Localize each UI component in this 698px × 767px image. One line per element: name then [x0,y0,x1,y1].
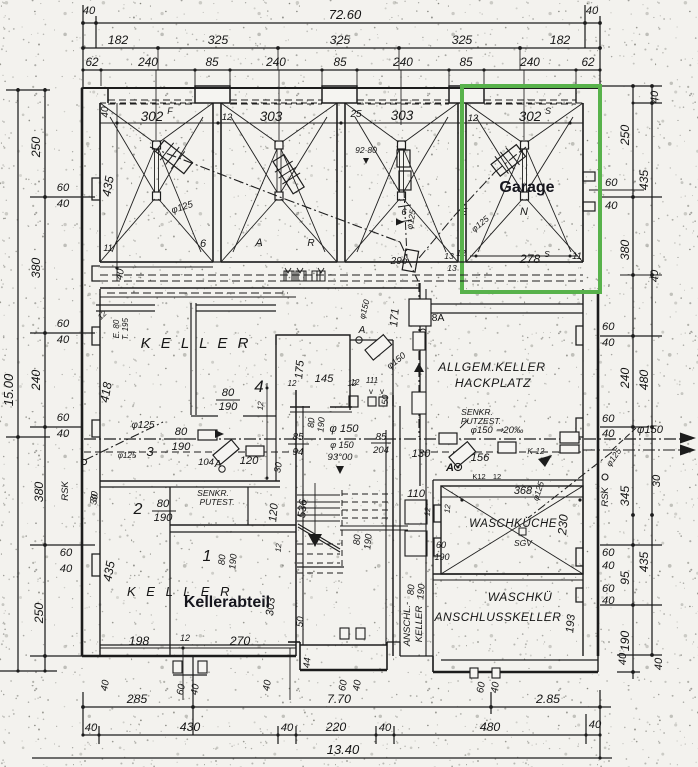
bottom dimension row 13.40 [32,742,612,760]
svg-text:204: 204 [372,445,389,456]
svg-text:RSK: RSK [60,481,71,501]
svg-text:40: 40 [649,90,661,103]
svg-text:240: 240 [519,55,540,69]
svg-text:130: 130 [412,448,431,460]
garage box 3 (303) [345,103,458,262]
green highlight rectangle Garage [462,86,600,292]
svg-text:30: 30 [651,474,663,487]
room KELLER (middle left) [96,303,280,487]
svg-text:40: 40 [57,334,70,346]
outer wall bottom [82,642,598,672]
svg-text:145: 145 [315,373,334,385]
svg-text:7.70: 7.70 [327,692,351,706]
svg-text:430: 430 [180,720,201,734]
bottom door center (stair exit) [337,628,365,692]
svg-text:85: 85 [205,55,219,69]
bottom dimension row 430/220/480 [81,714,602,744]
garage separating walls [213,103,466,262]
pumps right side [412,425,579,474]
svg-text:40: 40 [586,5,599,17]
svg-text:S: S [545,106,551,116]
vent squares [284,268,325,281]
svg-text:44: 44 [302,657,314,668]
svg-text:302: 302 [519,109,542,124]
svg-text:190: 190 [434,552,449,562]
stair treads [295,483,408,669]
svg-text:1: 1 [203,548,212,565]
svg-text:12: 12 [468,113,479,124]
svg-text:111: 111 [366,376,378,385]
svg-text:303: 303 [260,109,283,124]
garage machine 1 [153,137,195,177]
svg-text:40: 40 [653,657,665,670]
svg-text:270: 270 [229,634,251,648]
pipe diagonal through garages [150,147,528,281]
svg-text:193: 193 [564,613,578,633]
duct squares center [276,271,320,345]
svg-text:120: 120 [240,455,259,467]
svg-text:120: 120 [267,502,281,522]
svg-text:60: 60 [602,547,615,559]
svg-text:Garage: Garage [499,179,554,196]
svg-text:435: 435 [637,170,651,191]
svg-text:40: 40 [605,200,618,212]
svg-text:3: 3 [146,444,154,459]
svg-text:190: 190 [362,533,374,550]
bottom interior dims 198/270 [99,633,296,700]
svg-text:480: 480 [480,720,501,734]
svg-text:v: v [369,387,373,396]
svg-text:60: 60 [60,547,73,559]
svg-text:278: 278 [519,252,541,266]
garage machine 3 vertical gear [396,150,419,272]
svg-text:95: 95 [618,571,632,585]
svg-text:190: 190 [618,631,632,652]
svg-text:40: 40 [589,719,602,731]
svg-text:40: 40 [57,198,70,210]
svg-text:536: 536 [296,498,310,518]
svg-text:40: 40 [602,428,615,440]
svg-text:302: 302 [141,109,164,124]
svg-text:Kellerabteil: Kellerabteil [184,594,270,611]
svg-text:62: 62 [581,55,595,69]
svg-text:2.85: 2.85 [535,692,560,706]
svg-text:156: 156 [471,452,490,464]
room WASCHKUE ANSCHLUSSKELLER [402,480,583,672]
svg-text:171: 171 [388,308,402,328]
svg-text:190: 190 [315,417,326,433]
garage center guide lines [156,70,524,140]
svg-text:E. 80: E. 80 [112,319,121,338]
svg-text:WASCHKÜ: WASCHKÜ [488,590,553,604]
svg-text:40: 40 [379,722,392,734]
room 4 [216,308,402,481]
svg-text:N: N [520,206,528,218]
svg-text:2: 2 [133,501,143,518]
svg-text:R: R [307,238,314,249]
vertical pipe with fittings [356,283,431,437]
svg-text:62: 62 [85,55,99,69]
svg-text:60: 60 [57,318,70,330]
left dimension rail inner [29,88,95,671]
svg-text:25: 25 [349,109,362,120]
garage box 1 (302) [100,103,213,262]
svg-text:A: A [445,462,454,474]
outer wall top with garage piers [82,86,600,292]
pipe labels left [60,420,309,503]
svg-text:12: 12 [351,378,360,387]
room 2 [88,487,176,656]
svg-text:50: 50 [295,615,307,627]
svg-text:12: 12 [443,503,453,513]
svg-text:A: A [254,237,262,249]
svg-text:303: 303 [391,108,414,123]
svg-text:80: 80 [175,426,188,438]
svg-text:6: 6 [200,238,207,250]
svg-text:80: 80 [222,387,235,399]
svg-text:220: 220 [325,720,347,734]
svg-text:60: 60 [602,413,615,425]
svg-text:85: 85 [333,55,347,69]
svg-text:40: 40 [60,563,73,575]
svg-text:190: 190 [219,401,238,413]
phi150 right outside [604,424,664,468]
svg-text:104: 104 [198,457,214,468]
phi150 labels center [328,423,391,474]
room ALLGEM.KELLER HACKPLATZ [420,283,583,486]
svg-text:40: 40 [281,722,294,734]
svg-text:T. 195: T. 195 [121,317,130,339]
bottom door left [173,661,207,675]
svg-text:12: 12 [222,112,233,123]
wall band below garages [92,262,583,297]
garage interior dim line y=123 [100,103,583,281]
wall pilasters waschkueche left [434,505,441,556]
svg-text:60: 60 [602,321,615,333]
svg-text:240: 240 [618,368,632,390]
svg-text:v: v [380,387,384,396]
svg-text:325: 325 [452,33,473,47]
svg-text:φ125: φ125 [131,420,155,431]
svg-text:K12: K12 [472,472,485,481]
svg-text:12: 12 [274,542,284,552]
room KELLER lower with Kellerabteil [100,560,277,617]
garage machine 2 [270,153,308,196]
svg-text:190: 190 [172,441,191,453]
svg-text:S: S [544,249,550,259]
svg-text:182: 182 [108,33,129,47]
svg-text:12: 12 [288,379,297,388]
svg-text:K E L L E R: K E L L E R [141,335,252,352]
garage box 2 (303) [221,103,337,262]
svg-text:40: 40 [602,595,615,607]
outer wall left [82,88,100,656]
svg-text:198: 198 [129,634,150,648]
svg-text:KELLER: KELLER [414,606,425,643]
svg-text:345: 345 [618,486,632,507]
svg-text:80: 80 [157,498,170,510]
dimension row 72.60 [81,5,602,88]
svg-text:240: 240 [392,55,413,69]
svg-text:380: 380 [32,482,46,503]
svg-text:A: A [214,459,222,470]
svg-text:40: 40 [602,560,615,572]
bottom door right [470,668,502,694]
svg-text:φ 150: φ 150 [329,423,359,435]
svg-text:12: 12 [256,400,266,410]
svg-text:8A: 8A [432,312,445,324]
svg-text:11: 11 [572,251,582,262]
svg-text:80: 80 [352,533,364,545]
svg-text:250: 250 [29,137,43,159]
svg-text:240: 240 [265,55,286,69]
svg-text:φ125: φ125 [118,451,137,460]
svg-text:ALLGEM.KELLER: ALLGEM.KELLER [437,360,545,374]
svg-text:K: K [527,447,533,456]
svg-text:60: 60 [57,412,70,424]
svg-text:94: 94 [292,447,304,458]
svg-text:60: 60 [602,583,615,595]
svg-text:85: 85 [459,55,473,69]
svg-text:ANSCHL.-: ANSCHL.- [402,602,413,647]
svg-text:φ150: φ150 [637,424,664,436]
room 1 [170,487,296,570]
svg-text:12: 12 [180,633,190,643]
svg-text:190: 190 [154,512,173,524]
right dimension rail 2 [600,84,665,670]
svg-text:15.00: 15.00 [1,373,16,406]
pumps on pipe row [198,430,264,472]
svg-text:HACKPLATZ: HACKPLATZ [455,376,531,390]
corridor wall right of stairs [400,406,432,656]
svg-text:325: 325 [330,33,351,47]
svg-text:250: 250 [32,603,46,625]
svg-text:PUTEST.: PUTEST. [199,497,234,507]
svg-text:40: 40 [57,428,70,440]
svg-text:240: 240 [137,55,158,69]
svg-text:230: 230 [555,514,571,537]
dimension row 182/325 [81,33,602,70]
svg-text:12: 12 [536,447,545,456]
svg-text:40: 40 [100,106,111,118]
right dimension rail 1 [600,84,662,679]
svg-text:190: 190 [415,583,427,600]
svg-text:250: 250 [618,125,632,147]
svg-text:F: F [167,106,173,116]
svg-text:40: 40 [602,337,615,349]
svg-text:WASCHKÜCHE: WASCHKÜCHE [469,518,557,530]
svg-text:240: 240 [29,370,43,392]
svg-text:85: 85 [292,432,304,443]
svg-text:13: 13 [447,263,457,273]
svg-text:A: A [358,325,366,336]
svg-text:480: 480 [637,370,651,391]
svg-text:11: 11 [103,243,112,253]
svg-text:φ 150: φ 150 [330,440,353,450]
svg-text:110: 110 [407,488,426,500]
svg-text:6: 6 [401,207,407,218]
svg-text:368: 368 [514,485,533,497]
garage machine 4 [489,141,528,178]
svg-text:40: 40 [617,652,629,665]
svg-text:380: 380 [618,240,632,261]
svg-text:RSK: RSK [600,487,611,507]
svg-text:80: 80 [217,553,229,565]
svg-text:380: 380 [29,258,43,279]
svg-text:φ150 ⇒20‰: φ150 ⇒20‰ [471,425,524,436]
outer wall right [576,103,644,656]
svg-text:285: 285 [126,692,148,706]
dimension row 62/240/85 [81,55,601,86]
svg-text:12: 12 [493,472,501,481]
svg-text:93°00: 93°00 [328,452,354,463]
main pipe axis phi150 [84,433,696,481]
svg-text:60: 60 [436,540,446,550]
bottom dimension row 7.70 [81,657,611,758]
svg-text:4: 4 [254,377,263,396]
svg-text:13.40: 13.40 [327,742,360,757]
svg-text:40: 40 [83,5,96,17]
SENKR PUTEST labels [197,407,501,507]
svg-text:182: 182 [550,33,571,47]
svg-text:72.60: 72.60 [329,7,362,22]
svg-text:SGV: SGV [514,538,533,548]
svg-text:60: 60 [57,182,70,194]
svg-text:190: 190 [227,553,239,570]
garage box 4 (302) Garage [466,103,583,262]
left dimension rail outer 15.00 [0,88,57,673]
garage labels row [141,106,551,164]
svg-text:40: 40 [85,722,98,734]
svg-text:60: 60 [605,177,618,189]
svg-text:13: 13 [444,251,454,261]
svg-text:435: 435 [637,552,651,573]
svg-text:325: 325 [208,33,229,47]
svg-text:92·80: 92·80 [355,145,377,155]
stair shaft [256,376,393,656]
garage bottom labels [99,106,582,281]
svg-text:12: 12 [423,506,433,516]
svg-text:85: 85 [375,432,387,443]
svg-text:80: 80 [306,417,317,428]
svg-text:ANSCHLUSSKELLER: ANSCHLUSSKELLER [434,610,562,624]
room WASCHKUECHE [433,452,612,574]
svg-text:175: 175 [293,359,307,379]
